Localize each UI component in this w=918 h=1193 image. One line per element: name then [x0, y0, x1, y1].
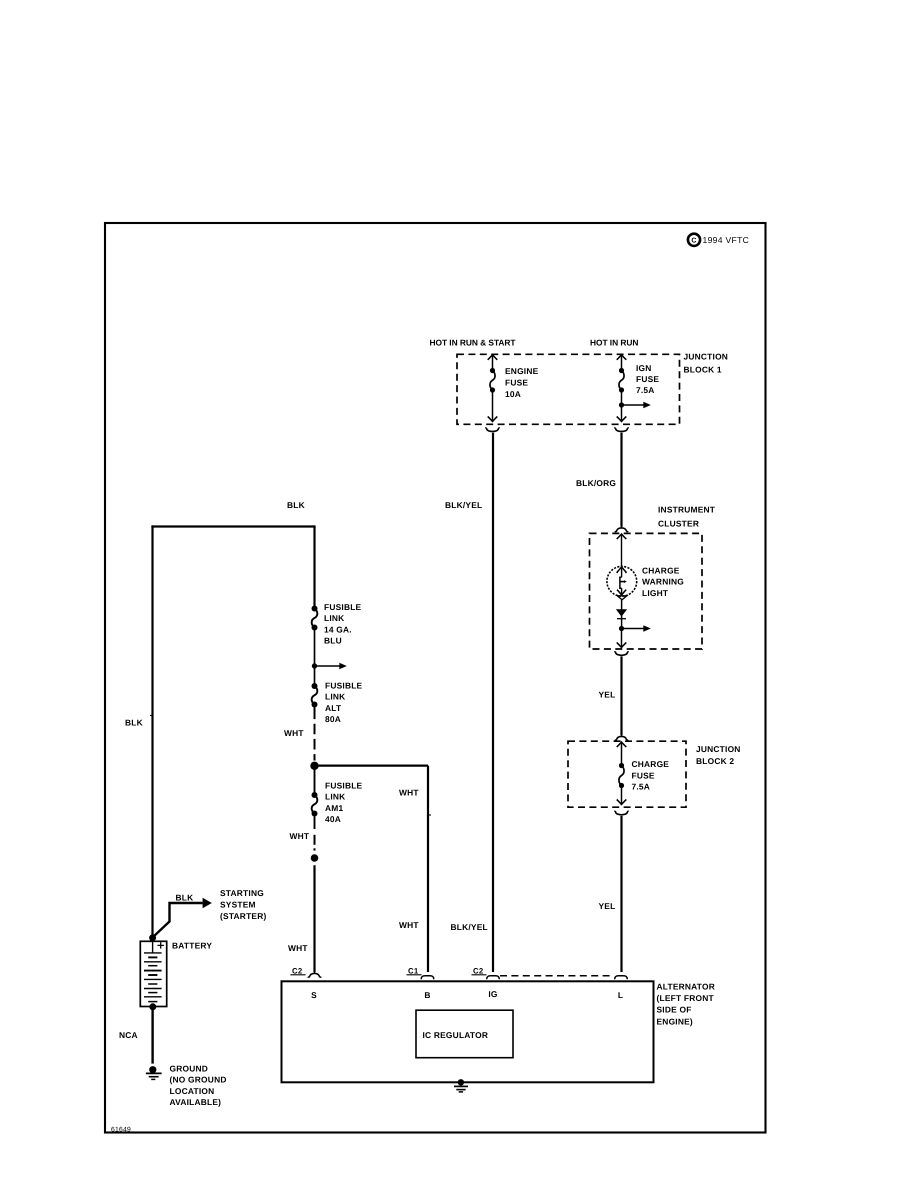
svg-text:(NO GROUND: (NO GROUND — [170, 1075, 227, 1085]
page border frame — [105, 223, 766, 1133]
svg-text:LINK: LINK — [325, 792, 345, 802]
wire BLK/YEL (IG circuit) — [492, 433, 494, 972]
svg-text:CHARGE: CHARGE — [642, 565, 680, 575]
svg-text:B: B — [424, 990, 430, 1000]
wire inside cluster below bulb — [621, 600, 623, 629]
svg-text:YEL: YEL — [599, 689, 616, 699]
charge warning light bulb — [607, 566, 637, 596]
wire YEL upper — [620, 656, 622, 735]
connector at instrument cluster entry — [615, 527, 628, 532]
branch wire WHT to terminal B — [315, 764, 429, 766]
svg-text:LINK: LINK — [325, 692, 345, 702]
svg-text:61649: 61649 — [111, 1126, 131, 1133]
svg-text:(LEFT FRONT: (LEFT FRONT — [657, 993, 715, 1003]
svg-text:INSTRUMENT: INSTRUMENT — [658, 504, 716, 514]
svg-text:HOT IN RUN & START: HOT IN RUN & START — [430, 337, 517, 347]
tick on battery riser — [150, 715, 153, 717]
wire fusible link column upper — [313, 527, 315, 609]
arrow at instrument cluster exit — [621, 629, 623, 648]
tick on B branch wire — [428, 814, 431, 816]
alternator ground symbol — [458, 1079, 464, 1085]
svg-text:FUSE: FUSE — [505, 377, 528, 387]
svg-text:LOCATION: LOCATION — [170, 1086, 215, 1096]
svg-text:40A: 40A — [325, 814, 341, 824]
svg-text:IGN: IGN — [636, 363, 652, 373]
svg-text:IG: IG — [488, 989, 497, 999]
svg-text:BLK/YEL: BLK/YEL — [445, 500, 482, 510]
svg-text:NCA: NCA — [119, 1030, 138, 1040]
svg-text:WHT: WHT — [284, 728, 304, 738]
svg-text:HOT IN RUN: HOT IN RUN — [590, 337, 638, 347]
svg-text:7.5A: 7.5A — [632, 782, 651, 792]
svg-text:STARTING: STARTING — [220, 888, 264, 898]
svg-text:FUSIBLE: FUSIBLE — [325, 680, 363, 690]
svg-text:ALT: ALT — [325, 703, 342, 713]
dashed wire WHT below ALT link — [314, 705, 316, 714]
svg-text:10A: 10A — [505, 389, 521, 399]
wire top horizontal — [151, 525, 315, 527]
instrument cluster dashed box — [590, 533, 703, 649]
svg-text:FUSE: FUSE — [636, 374, 659, 384]
connector C2 at terminal S — [308, 972, 321, 977]
svg-text:ENGINE): ENGINE) — [657, 1016, 693, 1026]
svg-text:(STARTER): (STARTER) — [220, 911, 266, 921]
svg-text:CHARGE: CHARGE — [632, 759, 670, 769]
connector below junction block 2 — [614, 811, 628, 815]
svg-text:AVAILABLE): AVAILABLE) — [170, 1097, 222, 1107]
junction dot on S wire — [311, 854, 319, 862]
svg-text:ALTERNATOR: ALTERNATOR — [657, 982, 716, 992]
fusible link 14 GA BLU — [312, 606, 318, 612]
svg-text:JUNCTION: JUNCTION — [696, 744, 741, 754]
svg-text:BLOCK 2: BLOCK 2 — [696, 756, 734, 766]
svg-text:AM1: AM1 — [325, 803, 343, 813]
svg-text:GROUND: GROUND — [170, 1063, 209, 1073]
svg-text:C: C — [691, 238, 696, 245]
battery B1 — [140, 941, 166, 1006]
svg-text:BLK/ORG: BLK/ORG — [576, 478, 616, 488]
svg-text:SIDE OF: SIDE OF — [657, 1005, 692, 1015]
svg-text:BLOCK 1: BLOCK 1 — [684, 364, 722, 374]
dashed connector link IG to L — [500, 975, 611, 977]
fuse CHARGE 7.5A — [617, 742, 627, 747]
svg-text:YEL: YEL — [599, 901, 616, 911]
svg-text:80A: 80A — [325, 714, 341, 724]
svg-text:LINK: LINK — [324, 613, 344, 623]
junction block 1 dashed box — [457, 354, 680, 424]
connector at terminal L — [615, 976, 628, 980]
wire to ALT link — [314, 666, 316, 686]
svg-text:BATTERY: BATTERY — [172, 940, 212, 950]
svg-text:1994 VFTC: 1994 VFTC — [703, 235, 750, 245]
svg-text:LIGHT: LIGHT — [642, 588, 669, 598]
current direction arrow below bulb — [616, 609, 627, 616]
svg-text:WHT: WHT — [399, 920, 419, 930]
wire WHT to terminal S — [313, 865, 315, 972]
svg-text:7.5A: 7.5A — [636, 385, 655, 395]
connector at junction block 2 entry — [615, 735, 628, 740]
fusible link ALT 80A — [312, 683, 318, 689]
svg-text:FUSIBLE: FUSIBLE — [324, 602, 362, 612]
svg-text:S: S — [311, 990, 317, 1000]
wire BLK to starting system — [153, 903, 203, 937]
svg-text:ENGINE: ENGINE — [505, 366, 539, 376]
svg-text:14 GA.: 14 GA. — [324, 624, 352, 634]
svg-text:FUSIBLE: FUSIBLE — [325, 780, 363, 790]
svg-text:WHT: WHT — [290, 831, 310, 841]
junction block 2 dashed box — [568, 741, 686, 807]
svg-text:BLU: BLU — [324, 636, 342, 646]
svg-text:WHT: WHT — [399, 787, 419, 797]
dash-dot wire below AM1 link — [314, 814, 316, 830]
svg-text:CLUSTER: CLUSTER — [658, 518, 699, 528]
svg-text:BLK: BLK — [287, 500, 305, 510]
fuse IGN 7.5A — [617, 355, 627, 360]
wire below BLU link — [314, 628, 316, 667]
connector C1 at terminal B — [421, 976, 434, 980]
fuse ENGINE 10A — [488, 355, 498, 360]
svg-text:L: L — [618, 990, 623, 1000]
svg-text:WHT: WHT — [288, 943, 308, 953]
copyright symbol and 1994 VFTC — [688, 234, 700, 246]
connector below junction block 1 left — [485, 428, 499, 432]
junction dot WHT branch — [310, 762, 318, 770]
battery ground symbol — [149, 1066, 156, 1073]
alternator box — [282, 981, 654, 1082]
fusible link AM1 40A — [314, 766, 316, 795]
wire BLK battery riser — [151, 525, 153, 938]
svg-text:C2: C2 — [292, 966, 303, 975]
svg-text:SYSTEM: SYSTEM — [220, 900, 256, 910]
svg-text:BLK/YEL: BLK/YEL — [451, 922, 488, 932]
wire NCA battery ground — [151, 1007, 153, 1064]
junction dot and branch arrow from IGN fuse — [619, 402, 624, 407]
connector C2 at terminal IG — [487, 976, 500, 980]
svg-text:BLK: BLK — [176, 892, 194, 902]
svg-text:C1: C1 — [408, 966, 419, 975]
junction dot and branch arrow in instrument cluster — [619, 626, 624, 631]
arrow to starting system — [203, 898, 212, 909]
junction dot and branch arrow below BLU link — [312, 663, 317, 668]
connector below instrument cluster — [614, 652, 628, 656]
arrow into instrument cluster — [617, 534, 627, 539]
svg-text:BLK: BLK — [125, 717, 143, 727]
svg-text:FUSE: FUSE — [632, 770, 655, 780]
connector below junction block 1 right — [614, 428, 628, 432]
wire YEL lower — [620, 816, 622, 972]
battery bottom terminal dot — [149, 1003, 156, 1010]
battery top terminal dot — [149, 934, 156, 941]
svg-text:JUNCTION: JUNCTION — [684, 351, 729, 361]
IC regulator box — [416, 1010, 513, 1057]
svg-text:WARNING: WARNING — [642, 577, 684, 587]
svg-text:IC REGULATOR: IC REGULATOR — [423, 1030, 489, 1040]
svg-text:C2: C2 — [473, 966, 484, 975]
wire BLK/ORG — [620, 433, 622, 527]
